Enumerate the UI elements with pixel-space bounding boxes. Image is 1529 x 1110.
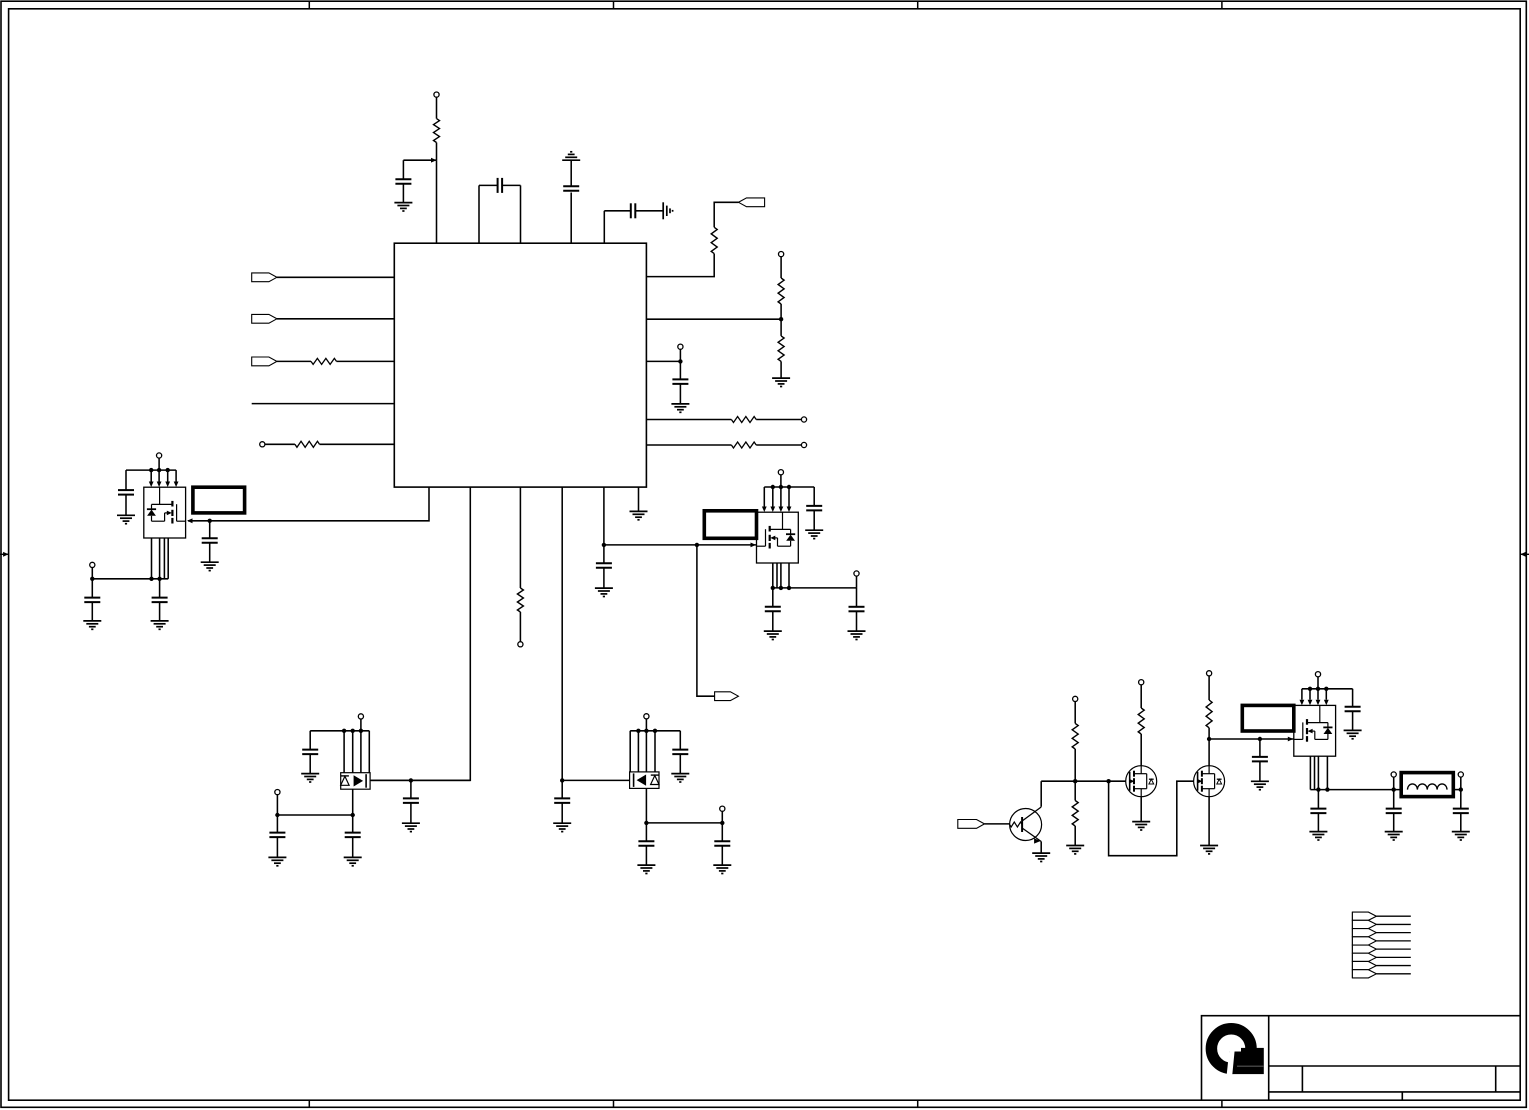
node junction Q2b — [779, 485, 783, 489]
wire R11 top lead — [1074, 781, 1076, 800]
ground Q8 — [1200, 846, 1218, 854]
wire C16 bottom lead — [309, 754, 311, 773]
resistor R7 — [517, 588, 523, 612]
capacitor C24 — [1310, 809, 1326, 814]
terminal T18 — [1207, 671, 1212, 676]
wire C18 top lead — [352, 815, 354, 833]
border zone ticks top — [309, 1, 1222, 9]
node junction Q2a — [771, 485, 775, 489]
wire U1 xtal left pin — [479, 185, 498, 243]
wire T3 lead — [679, 349, 681, 361]
terminal T2 — [779, 252, 784, 257]
wire C19 bottom lead — [679, 754, 681, 773]
node junction Q5s2 — [720, 821, 724, 825]
wire Q1 sources — [152, 538, 169, 579]
wire C14 bottom lead — [772, 611, 774, 631]
wire C26 bottom lead — [1460, 813, 1462, 831]
terminal T5 — [801, 442, 806, 447]
flag F2 — [715, 692, 739, 701]
node junction B4 — [560, 778, 564, 782]
capacitor C15 — [849, 607, 865, 612]
wire C13 top lead — [813, 487, 815, 506]
flag F4 — [252, 314, 277, 323]
wire J1 pin 1 — [1376, 915, 1410, 917]
wire C12 top lead — [159, 579, 161, 598]
wire C7 bottom lead — [410, 803, 412, 823]
resistor R9 — [295, 441, 320, 447]
title block — [1202, 1016, 1521, 1100]
wire C25 bottom lead — [1393, 813, 1395, 831]
wire R10 bottom lead — [1074, 749, 1076, 781]
wire R1 top lead — [436, 97, 438, 118]
wire C5 top lead — [679, 361, 681, 379]
capacitor C1 — [395, 179, 411, 184]
wire C22 top lead — [1259, 739, 1261, 757]
terminal T14 — [644, 714, 649, 719]
wire Q6 collector — [1040, 781, 1042, 807]
wire T9 lead — [91, 568, 93, 579]
resistor R2 — [711, 227, 717, 253]
resistor R5 — [731, 417, 756, 423]
node junction Q4s2 — [275, 813, 279, 817]
node junction Q4s — [351, 813, 355, 817]
capacitor C6 — [202, 538, 218, 543]
power symbol VP1 — [562, 152, 580, 160]
drain arrowheads Q1 — [149, 482, 179, 488]
wire C1 bottom lead — [402, 184, 404, 203]
node junction FB1b — [1459, 787, 1463, 791]
wire L5 right lead — [320, 443, 395, 445]
connector J1 pin 3 flag — [1352, 929, 1376, 937]
resistor R3 — [778, 278, 784, 304]
wire C23 top lead — [1352, 689, 1354, 707]
wire R5 right lead — [756, 419, 801, 421]
wire C4 right lead — [635, 210, 663, 212]
capacitor C20 — [638, 841, 654, 846]
wire U1 xtal right pin — [502, 185, 520, 243]
capacitor C14 — [765, 607, 781, 612]
border center arrow left — [0, 552, 9, 557]
node junction Q3b — [1316, 687, 1320, 691]
node junction Q4b — [351, 729, 355, 733]
wire U1 pin B6 — [638, 487, 640, 511]
wire J1 pin 5 — [1376, 948, 1410, 950]
ground C13 — [805, 530, 823, 538]
ground C22 — [1251, 781, 1269, 789]
capacitor C2 — [498, 178, 503, 193]
ground R4 — [772, 378, 790, 386]
label box Q3 — [1242, 705, 1294, 731]
wire T13 lead — [276, 795, 278, 815]
transistor Q5 — [630, 772, 659, 789]
terminal T13 — [275, 790, 280, 795]
terminal T8 — [157, 453, 162, 458]
ground C21 — [713, 865, 731, 873]
wire C10 top lead — [125, 470, 127, 490]
wire Q5 source bus — [646, 822, 722, 824]
ground B6 — [630, 511, 648, 519]
wire C6 top lead — [209, 521, 211, 538]
wire Q2 sources — [773, 563, 789, 588]
connector J1 pin 8 flag — [1352, 970, 1376, 978]
capacitor C25 — [1386, 809, 1402, 814]
wire T11 lead — [856, 576, 858, 588]
capacitor C5 — [672, 379, 688, 384]
wire R13 top lead — [1208, 676, 1210, 700]
ground C5 — [671, 404, 689, 412]
resistor R11 — [1072, 801, 1078, 827]
wire C12 bottom lead — [159, 602, 161, 621]
wire Q5 source — [645, 788, 647, 823]
capacitor C7 — [403, 798, 419, 803]
wire Q4 source bus — [277, 814, 352, 816]
wire C15 top lead — [856, 588, 858, 607]
chassis ground G4 — [663, 202, 672, 219]
capacitor C21 — [714, 841, 730, 846]
wire U1 pin B1 — [188, 487, 429, 521]
wire C8 top lead — [561, 780, 563, 798]
flag F6 — [958, 820, 985, 829]
capacitor C3 — [563, 186, 579, 191]
gate arrowhead Q1 — [187, 518, 193, 523]
ground C6 — [201, 562, 219, 570]
label box Q1 — [193, 487, 245, 513]
node junction B2 — [409, 778, 413, 782]
node junction Q2c — [787, 485, 791, 489]
wire R4 top lead — [780, 319, 782, 336]
ground C14 — [764, 631, 782, 639]
capacitor C19 — [672, 750, 688, 755]
wire C21 top lead — [721, 823, 723, 841]
wire C10 bottom lead — [125, 495, 127, 515]
flag F5 — [252, 357, 277, 366]
wire Q4 drain bus — [310, 730, 369, 732]
wire Q8 source — [1208, 797, 1210, 846]
node junction Q2s3 — [787, 586, 791, 590]
wire R12 top lead — [1140, 685, 1142, 708]
connector J1 bus — [1351, 912, 1353, 978]
wire T21 lead — [1460, 777, 1462, 790]
node junction Q5c — [653, 729, 657, 733]
wire FB1 right — [1453, 789, 1461, 791]
wire U1 pin R3 — [646, 360, 680, 362]
wire U1 pin T1 — [436, 160, 438, 243]
wire C25 top lead — [1393, 790, 1395, 809]
capacitor C17 — [269, 833, 285, 838]
wire U1 pin B2 — [371, 487, 470, 780]
node junction Q1c — [166, 468, 170, 472]
node junction N3 — [1207, 737, 1211, 741]
node junction Q3s2 — [1325, 787, 1329, 791]
terminal T10 — [778, 470, 783, 475]
wire L3 left lead — [277, 360, 311, 362]
wire Q4 source — [352, 789, 354, 815]
ground C23 — [1344, 730, 1362, 738]
ground C15 — [848, 631, 866, 639]
wire Q6 emitter — [1040, 842, 1042, 853]
border center arrow right — [1520, 552, 1529, 557]
wire R13 bottom lead — [1208, 728, 1210, 766]
ground Q6 — [1032, 853, 1050, 861]
wire U1 pin B4 — [561, 487, 563, 780]
node junction Q1s1 — [149, 577, 153, 581]
wire C23 bottom lead — [1352, 711, 1354, 730]
terminal T12 — [358, 714, 363, 719]
terminal T19 — [1315, 672, 1320, 677]
flag F3 — [252, 273, 277, 282]
wire Q3 source bus — [1310, 789, 1401, 791]
wire R2 to flag — [714, 202, 738, 227]
wire C6 bottom lead — [209, 543, 211, 562]
connector J1 pin 7 flag — [1352, 961, 1376, 969]
wire Q5 drain stubs — [630, 731, 655, 772]
node junction Q5a — [636, 729, 640, 733]
wire C18 bottom lead — [352, 837, 354, 857]
resistor R8 — [311, 358, 337, 364]
wire U1 pin T4 — [604, 211, 631, 243]
connector J1 pin 4 flag — [1352, 937, 1376, 945]
node junction Q2s2 — [779, 586, 783, 590]
capacitor C10 — [118, 490, 134, 495]
wire C11 bottom lead — [91, 602, 93, 621]
node junction R2 — [779, 317, 783, 321]
wire R12 bottom lead — [1140, 734, 1142, 766]
wire J1 pin 3 — [1376, 932, 1410, 934]
wire T12 lead — [360, 719, 362, 731]
capacitor C13 — [806, 506, 822, 511]
node junction N2 — [1106, 779, 1110, 783]
node junction FB1a — [1392, 787, 1396, 791]
inductor FB1 — [1401, 773, 1453, 797]
capacitor C16 — [302, 750, 318, 755]
terminal T11 — [854, 571, 859, 576]
wire C24 top lead — [1317, 790, 1319, 809]
ground C7 — [402, 823, 420, 831]
node junction Q1a — [149, 468, 153, 472]
wire C14 top lead — [772, 588, 774, 607]
terminal T7 — [260, 442, 265, 447]
capacitor C26 — [1453, 809, 1469, 814]
wire J1 pin 2 — [1376, 923, 1410, 925]
transistor Q3 — [1294, 705, 1336, 756]
wire N2 to Q8 gate — [1109, 781, 1194, 856]
wire U1 pin B3 — [519, 487, 521, 588]
node junction Q3c — [1324, 687, 1328, 691]
wire R11 bottom lead — [1074, 826, 1076, 845]
ground Q7 — [1132, 822, 1150, 830]
wire Q3 drain bus — [1302, 688, 1353, 690]
wire C9 bottom lead — [603, 568, 605, 588]
wire C26 top lead — [1460, 790, 1462, 809]
flag F1 — [739, 198, 765, 207]
node junction Q5b — [644, 729, 648, 733]
terminal T16 — [1073, 696, 1078, 701]
wire C21 bottom lead — [721, 846, 723, 865]
terminal T4 — [801, 417, 806, 422]
wire C15 bottom lead — [856, 611, 858, 631]
terminal T17 — [1139, 680, 1144, 685]
node junction N1 — [1073, 779, 1077, 783]
wire Q2 source bus — [773, 587, 857, 589]
wire T19 lead — [1317, 677, 1319, 689]
wire Q1 drain stubs — [151, 470, 176, 481]
transistor Q2 — [757, 512, 799, 563]
wire J1 pin 7 — [1376, 965, 1410, 967]
wire C8 bottom lead — [561, 803, 563, 823]
wire R6 right lead — [756, 444, 801, 446]
wire F6 to Q6 — [985, 823, 1010, 825]
wire C9 top lead — [603, 545, 605, 563]
resistor R10 — [1072, 723, 1078, 749]
connector J1 pin 5 flag — [1352, 945, 1376, 953]
node junction T1 — [431, 158, 437, 163]
wire Q7 source — [1140, 797, 1142, 822]
node junction B1 — [208, 519, 212, 523]
drain arrowheads Q3 — [1300, 700, 1329, 706]
wire C22 bottom lead — [1259, 761, 1261, 781]
ground C11 — [83, 621, 101, 629]
wire C1 branch — [403, 160, 436, 179]
node junction Q1s2 — [157, 577, 161, 581]
wire U1 pin L1 — [277, 276, 394, 278]
terminal T15 — [720, 806, 725, 811]
resistor R4 — [778, 336, 784, 362]
ground C26 — [1452, 832, 1470, 840]
wire C11 top lead — [91, 579, 93, 598]
ground C25 — [1385, 832, 1403, 840]
wire collector net — [1041, 780, 1126, 782]
connector J1 pin 2 flag — [1352, 920, 1376, 928]
wire R1 lead — [436, 143, 438, 161]
node junction Q3a — [1308, 687, 1312, 691]
resistor R13 — [1206, 700, 1212, 728]
wire C13 bottom lead — [813, 510, 815, 530]
ground C20 — [637, 865, 655, 873]
node junction Q1b — [157, 468, 161, 472]
wire L3 right lead — [337, 360, 395, 362]
node junction Q4a — [342, 729, 346, 733]
capacitor C12 — [152, 598, 168, 603]
terminal T6 — [518, 642, 523, 647]
node junction B5b — [695, 543, 699, 547]
wire U1 pin B5 — [603, 487, 605, 545]
capacitor C18 — [345, 833, 361, 838]
capacitor C8 — [554, 798, 570, 803]
transistor Q1 — [144, 487, 186, 538]
company logo — [1211, 1029, 1263, 1076]
wire Q1 source bus — [92, 578, 168, 580]
wire Q1 drain bus — [126, 469, 176, 471]
wire Q4 drain stubs — [344, 731, 369, 773]
border zone ticks bottom — [309, 1100, 1222, 1107]
connector J1 pin 6 flag — [1352, 953, 1376, 961]
wire U1 pin T3 — [570, 193, 572, 244]
ground C12 — [151, 621, 169, 629]
resistor R12 — [1138, 708, 1144, 734]
capacitor C9 — [596, 563, 612, 568]
wire Q2 drain stubs — [764, 487, 789, 507]
wire Q5 drain bus — [630, 730, 680, 732]
wire N3 to Q3 gate — [1209, 738, 1294, 740]
node junction Q5s — [644, 821, 648, 825]
wire C17 top lead — [276, 815, 278, 833]
capacitor C11 — [84, 598, 100, 603]
transistor Q7 — [1126, 766, 1157, 797]
wire J1 pin 8 — [1376, 973, 1410, 975]
node junction N4 — [1258, 737, 1262, 741]
wire Q4 gate — [370, 779, 470, 781]
wire T20 lead — [1393, 777, 1395, 790]
wire T10 lead — [780, 475, 782, 487]
transistor Q4 — [341, 773, 370, 790]
wire C20 bottom lead — [645, 846, 647, 865]
resistor R6 — [731, 442, 756, 448]
wire Q2 drain bus — [764, 486, 814, 488]
drain arrowheads Q2 — [762, 507, 792, 513]
wire L5 left lead — [265, 443, 295, 445]
ground C19 — [671, 774, 689, 782]
wire C7 top lead — [410, 780, 412, 798]
wire U1 pin R2 — [646, 318, 781, 320]
terminal T1 — [434, 92, 439, 97]
wire T15 lead — [721, 811, 723, 823]
wire T8 lead — [158, 458, 160, 470]
wire C19 top lead — [679, 731, 681, 750]
connector J1 pin 1 flag — [1352, 912, 1376, 920]
label box Q2 — [704, 511, 756, 539]
wire R3 top lead — [780, 257, 782, 278]
wire C5 bottom lead — [679, 384, 681, 404]
ground C10 — [117, 515, 135, 523]
transistor Q6 — [1010, 807, 1042, 844]
wire J1 pin 6 — [1376, 956, 1410, 958]
wire C24 bottom lead — [1317, 813, 1319, 831]
gate arrowhead Q3 — [1288, 737, 1294, 742]
node junction Q2s1 — [771, 586, 775, 590]
wire U1 pin R4 — [646, 419, 731, 421]
ground C1 — [394, 203, 412, 211]
wire J1 pin 4 — [1376, 940, 1410, 942]
wire U1 pin L4 — [252, 403, 395, 405]
wire C16 top lead — [309, 731, 311, 750]
wire C3 top lead — [570, 160, 572, 186]
wire B4 to Q5 gate — [562, 779, 629, 781]
gate arrowhead Q2 — [751, 543, 757, 548]
wire U1 pin R1 — [646, 254, 714, 277]
ground C16 — [301, 774, 319, 782]
wire C17 bottom lead — [276, 837, 278, 857]
wire B5 to flag F2 — [697, 545, 715, 696]
ground C24 — [1309, 832, 1327, 840]
resistor R1 — [434, 119, 440, 143]
ground C8 — [553, 823, 571, 831]
node junction Q3s1 — [1316, 787, 1320, 791]
capacitor C22 — [1252, 757, 1268, 762]
wire U1 pin L2 — [277, 318, 394, 320]
terminal T20 — [1391, 772, 1396, 777]
capacitor C23 — [1345, 707, 1361, 712]
ground C9 — [595, 588, 613, 596]
node junction Q1s3 — [90, 577, 94, 581]
wire Q3 drain stubs — [1302, 689, 1326, 700]
wire C20 top lead — [645, 823, 647, 841]
wire R7 bottom lead — [519, 612, 521, 642]
terminal T3 — [678, 344, 683, 349]
wire T14 lead — [645, 719, 647, 731]
terminal T9 — [90, 562, 95, 567]
ground C17 — [268, 857, 286, 865]
IC U1 — [394, 243, 646, 487]
